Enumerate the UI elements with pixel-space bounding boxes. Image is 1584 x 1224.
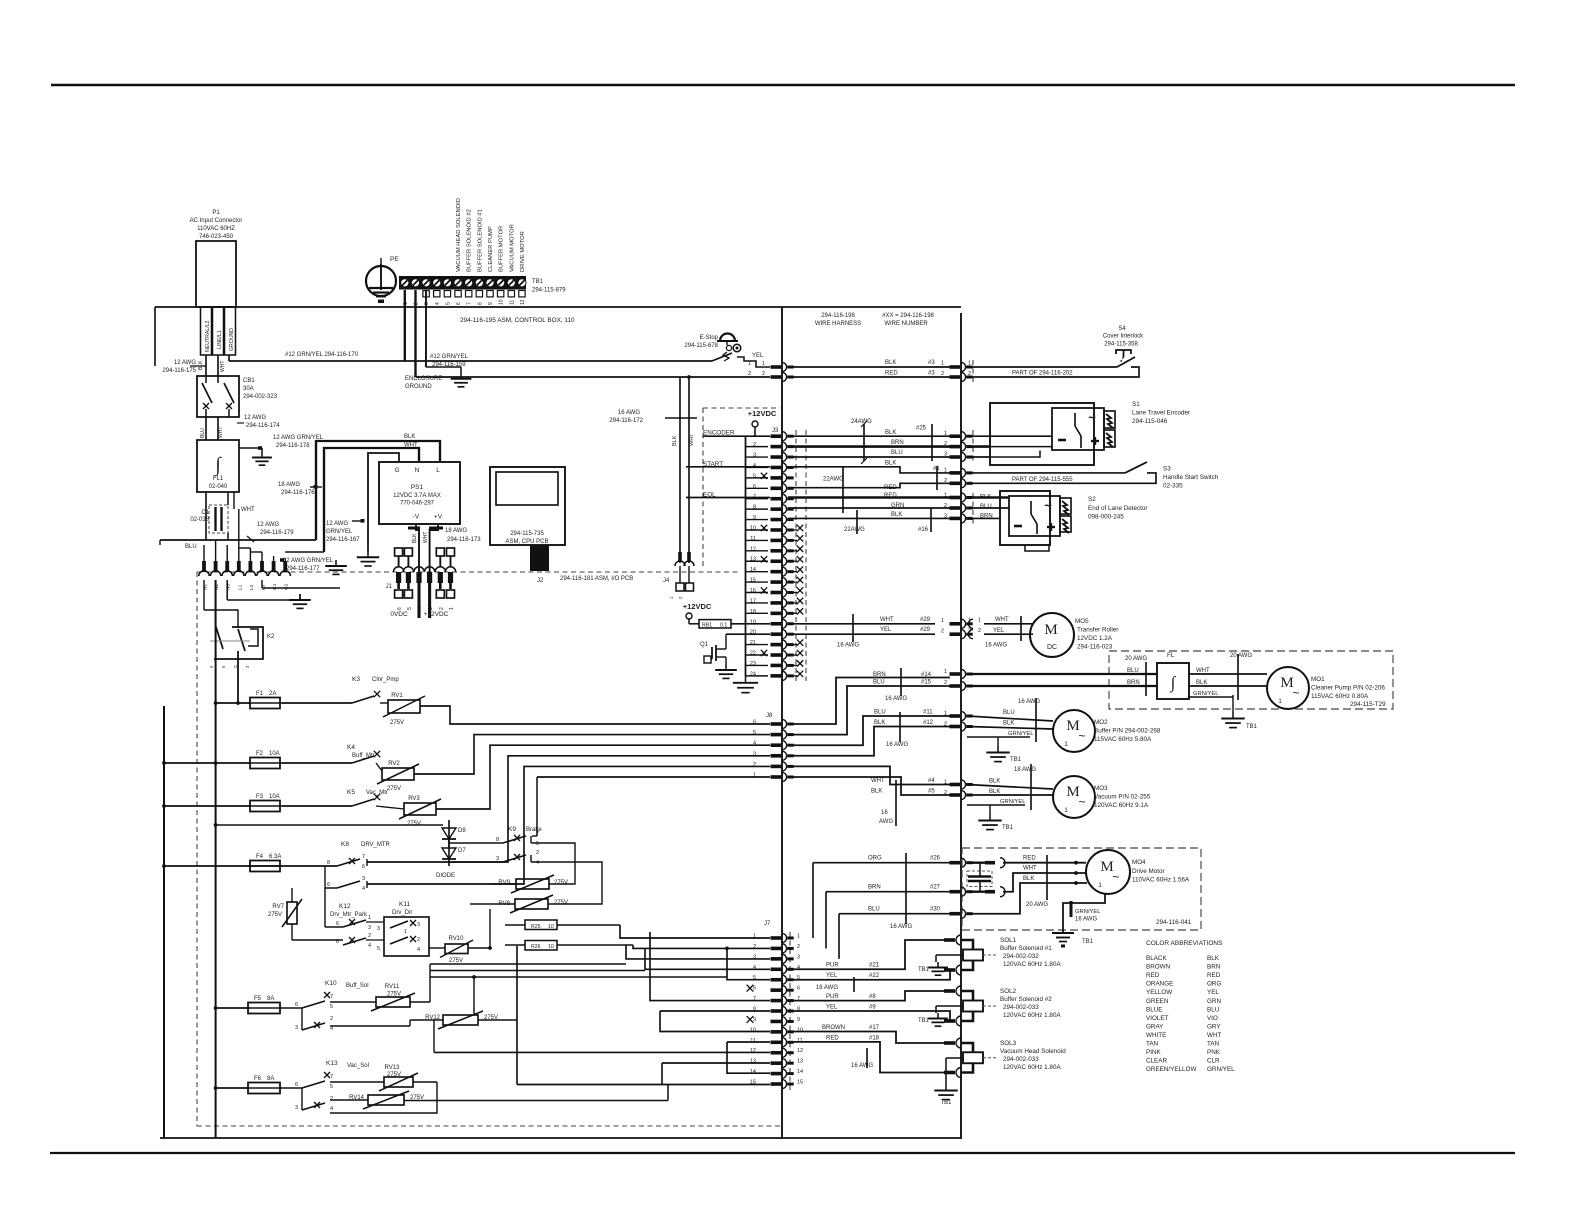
svg-text:R26: R26 [531,944,541,950]
svg-text:MO1: MO1 [1311,676,1325,683]
svg-text:294-115-358: 294-115-358 [1104,342,1138,348]
svg-text:ASM, CPU PCB: ASM, CPU PCB [505,539,548,545]
svg-text:SOL2: SOL2 [1000,988,1017,995]
svg-text:3: 3 [295,1105,298,1111]
svg-text:CB1: CB1 [243,378,255,384]
svg-text:#3: #3 [928,371,935,377]
svg-text:2: 2 [417,937,420,943]
svg-text:10A: 10A [269,751,280,757]
svg-text:1: 1 [1064,807,1068,814]
svg-text:GRN/YEL: GRN/YEL [1193,691,1219,697]
svg-text:294-116-181 ASM, I/O PCB: 294-116-181 ASM, I/O PCB [560,576,633,582]
svg-text:294-002-032: 294-002-032 [1003,953,1039,960]
svg-text:1: 1 [968,618,971,624]
svg-text:BLK: BLK [404,434,415,440]
svg-text:1: 1 [748,361,751,367]
svg-text:RB1: RB1 [702,622,712,628]
svg-text:1: 1 [1278,698,1282,705]
svg-text:8: 8 [496,837,499,843]
svg-text:15: 15 [797,1080,803,1086]
svg-text:CLR: CLR [1207,1058,1220,1065]
svg-text:-V: -V [413,514,420,521]
svg-text:294-116-176: 294-116-176 [281,490,315,496]
svg-text:YEL: YEL [826,1005,838,1011]
svg-text:+V: +V [434,514,443,521]
svg-text:PNK: PNK [1207,1049,1221,1056]
svg-text:S2: S2 [1088,496,1096,503]
svg-text:#26: #26 [930,856,941,862]
svg-text:2: 2 [944,503,947,509]
svg-text:294-116-198: 294-116-198 [821,313,855,319]
svg-text:BLU: BLU [873,680,885,686]
svg-text:D7: D7 [458,848,466,854]
svg-text:#14: #14 [921,672,932,678]
svg-text:16: 16 [881,810,888,816]
svg-text:1: 1 [762,361,765,367]
svg-text:PS1: PS1 [411,484,424,491]
svg-text:+12VDC: +12VDC [683,602,712,611]
svg-text:3: 3 [362,876,365,882]
svg-text:WHT: WHT [871,778,885,784]
svg-text:RV1: RV1 [391,693,403,699]
svg-text:GRN: GRN [891,503,904,509]
svg-text:3: 3 [377,926,380,932]
svg-text:DRV_MTR: DRV_MTR [361,842,391,848]
svg-text:TB1: TB1 [1246,724,1258,730]
svg-text:6: 6 [295,1002,298,1008]
svg-text:120VAC 60Hz 1.80A: 120VAC 60Hz 1.80A [1003,1012,1061,1019]
svg-text:#25: #25 [916,426,927,432]
svg-text:YEL: YEL [826,973,838,979]
svg-text:4: 4 [417,947,420,953]
svg-text:2: 2 [968,628,971,634]
svg-text:1: 1 [1098,882,1102,889]
svg-text:WHT: WHT [1207,1032,1221,1039]
svg-text:G2: G2 [284,583,290,590]
svg-text:VIO: VIO [1207,1015,1218,1022]
svg-text:K5: K5 [347,789,355,796]
svg-text:BLK: BLK [891,512,902,518]
svg-text:12 AWG: 12 AWG [174,360,196,366]
svg-text:LINE/L1: LINE/L1 [217,330,223,349]
svg-text:3: 3 [295,1025,298,1031]
svg-text:BRN: BRN [1207,964,1221,971]
svg-text:2: 2 [944,790,947,796]
svg-text:#12 GRN/YEL 294-116-170: #12 GRN/YEL 294-116-170 [285,352,359,358]
svg-text:GRAY: GRAY [1146,1023,1164,1030]
svg-text:1: 1 [753,773,756,779]
svg-text:RV11: RV11 [385,984,400,990]
svg-text:2: 2 [978,628,981,634]
svg-text:J8: J8 [766,713,773,719]
svg-text:10: 10 [499,299,505,305]
svg-text:BLACK: BLACK [1146,955,1167,962]
svg-text:#29: #29 [920,627,931,633]
svg-text:BRN: BRN [873,672,886,678]
svg-text:1: 1 [449,607,455,610]
svg-text:12 AWG: 12 AWG [244,415,266,421]
svg-text:MO5: MO5 [1075,618,1089,625]
svg-text:6: 6 [753,720,756,726]
svg-text:BROWN: BROWN [822,1025,845,1031]
svg-text:BLK: BLK [1003,721,1014,727]
svg-text:BLK: BLK [885,430,896,436]
svg-text:2: 2 [536,850,539,856]
svg-text:BLU: BLU [185,544,197,550]
svg-text:Buff_Sol: Buff_Sol [346,983,369,989]
svg-text:12VDC 3.7A MAX: 12VDC 3.7A MAX [393,493,441,499]
svg-text:VACUUM MOTOR: VACUUM MOTOR [509,224,515,272]
svg-text:16 AWG: 16 AWG [837,643,859,649]
svg-text:G1: G1 [272,583,278,590]
svg-text:3: 3 [944,452,947,458]
svg-text:RV13: RV13 [385,1065,401,1071]
svg-text:F3: F3 [256,794,264,800]
svg-text:4: 4 [362,886,365,892]
svg-text:294-115-879: 294-115-879 [532,288,566,294]
svg-text:DRIVE MOTOR: DRIVE MOTOR [520,231,526,272]
svg-text:3: 3 [424,302,430,305]
svg-text:AC Input Connector: AC Input Connector [190,218,243,224]
svg-text:Vac_Sol: Vac_Sol [347,1063,369,1069]
svg-text:4: 4 [368,943,371,949]
svg-text:PUR: PUR [826,963,839,969]
svg-text:120VAC 60Hz 1.80A: 120VAC 60Hz 1.80A [1003,1064,1061,1071]
svg-text:6: 6 [397,607,403,610]
svg-text:9: 9 [488,302,494,305]
svg-text:PINK: PINK [1146,1049,1161,1056]
svg-text:PART OF 294-115-555: PART OF 294-115-555 [1012,477,1073,483]
svg-text:6: 6 [797,986,800,992]
svg-text:10: 10 [750,1027,756,1033]
svg-text:MO3: MO3 [1094,785,1108,792]
svg-text:WHT: WHT [1023,866,1037,872]
svg-text:BUFFER MOTOR: BUFFER MOTOR [499,226,505,272]
svg-text:GRY: GRY [1207,1023,1221,1030]
svg-text:E-Stop: E-Stop [700,335,719,341]
svg-text:7: 7 [467,302,473,305]
svg-text:110VAC 60HZ: 110VAC 60HZ [197,226,235,232]
svg-text:K12: K12 [339,903,351,910]
svg-text:4: 4 [753,741,756,747]
svg-text:GRN/YEL: GRN/YEL [326,529,353,535]
svg-text:20 AWG: 20 AWG [1026,902,1048,908]
svg-text:3: 3 [368,925,371,931]
svg-text:10: 10 [548,924,554,930]
svg-text:~: ~ [1112,870,1119,884]
svg-text:1: 1 [968,361,971,367]
svg-text:294-116-174: 294-116-174 [246,423,280,429]
svg-text:3: 3 [753,751,756,757]
svg-text:BRN: BRN [868,885,881,891]
svg-text:#12: #12 [923,720,934,726]
svg-text:GRN/YEL: GRN/YEL [1207,1066,1235,1073]
svg-text:BLU: BLU [891,450,903,456]
svg-text:3: 3 [417,922,420,928]
svg-text:BLK: BLK [885,461,896,467]
svg-text:2: 2 [944,478,947,484]
svg-text:BLK: BLK [412,533,418,543]
svg-text:12VDC 1.2A: 12VDC 1.2A [1077,635,1113,642]
svg-text:5: 5 [407,607,413,610]
svg-text:K13: K13 [326,1060,338,1067]
svg-text:Handle Start Switch: Handle Start Switch [1163,474,1219,481]
svg-text:PUR: PUR [826,994,839,1000]
svg-text:16 AWG: 16 AWG [885,696,907,702]
svg-text:TB1: TB1 [1010,757,1022,763]
svg-text:0.1: 0.1 [720,622,727,628]
svg-text:PE: PE [390,256,399,263]
svg-text:3: 3 [944,514,947,520]
svg-text:1: 1 [368,915,371,921]
svg-text:12 AWG: 12 AWG [257,522,279,528]
svg-text:2: 2 [330,1096,333,1102]
svg-text:L2: L2 [249,584,255,590]
svg-text:PART OF 294-116-202: PART OF 294-116-202 [1012,371,1073,377]
svg-text:0VDC: 0VDC [390,611,408,618]
svg-text:12 AWG GRN/YEL: 12 AWG GRN/YEL [283,558,334,564]
svg-text:6: 6 [295,1082,298,1088]
svg-text:MO2: MO2 [1094,719,1108,726]
svg-text:#5: #5 [928,789,935,795]
svg-text:BLK: BLK [989,779,1000,785]
svg-text:CLEANER PUMP: CLEANER PUMP [488,226,494,272]
svg-text:YEL: YEL [880,627,892,633]
svg-text:K10: K10 [325,980,337,987]
svg-text:6: 6 [456,302,462,305]
svg-text:4: 4 [435,302,441,305]
svg-text:294-115-678: 294-115-678 [684,343,718,349]
svg-text:115VAC 60Hz 5.80A: 115VAC 60Hz 5.80A [1094,736,1152,743]
svg-text:2: 2 [439,607,445,610]
svg-text:16 AWG: 16 AWG [890,924,912,930]
svg-text:GRN: GRN [1207,998,1221,1005]
svg-text:294-116-177: 294-116-177 [286,566,320,572]
svg-text:VIOLET: VIOLET [1146,1015,1169,1022]
svg-text:8A: 8A [267,1076,274,1082]
svg-text:294-002-033: 294-002-033 [1003,1056,1039,1063]
svg-text:294-002-033: 294-002-033 [1003,1004,1039,1011]
svg-text:GREEN: GREEN [1146,998,1169,1005]
svg-text:1: 1 [797,934,800,940]
svg-text:16 AWG: 16 AWG [851,1063,873,1069]
svg-text:TB1: TB1 [1082,939,1094,945]
svg-text:J7: J7 [764,921,771,927]
svg-text:2: 2 [944,441,947,447]
svg-text:16 AWG: 16 AWG [1018,699,1040,705]
svg-text:1: 1 [944,493,947,499]
svg-text:F4: F4 [256,854,264,860]
svg-text:TB1: TB1 [918,967,930,973]
svg-text:24AWG: 24AWG [851,419,872,425]
svg-text:WHT: WHT [880,617,894,623]
svg-text:120VAC 60Hz 9.1A: 120VAC 60Hz 9.1A [1094,802,1149,809]
svg-text:BLU: BLU [200,428,206,438]
svg-text:BLU: BLU [980,504,992,510]
svg-text:GRN/YEL: GRN/YEL [1008,731,1034,737]
svg-text:WHITE: WHITE [1146,1032,1166,1039]
svg-text:4: 4 [330,1026,333,1032]
svg-text:294-116-175: 294-116-175 [162,368,196,374]
svg-text:16 AWG: 16 AWG [816,985,838,991]
svg-text:294-115-046: 294-115-046 [1132,418,1168,425]
svg-text:RED: RED [884,485,897,491]
svg-text:BLK: BLK [198,360,204,370]
svg-text:F2: F2 [256,751,264,757]
svg-text:294-115-735: 294-115-735 [510,531,544,537]
svg-text:16 AWG: 16 AWG [1075,917,1097,923]
svg-text:16 AWG: 16 AWG [985,643,1007,649]
svg-text:RV9: RV9 [498,880,510,886]
svg-text:FL1: FL1 [213,476,224,482]
svg-text:YEL: YEL [1207,989,1219,996]
svg-text:K8: K8 [341,841,349,848]
svg-text:2: 2 [748,371,751,377]
svg-text:D8: D8 [458,828,466,834]
svg-text:#15: #15 [921,680,932,686]
svg-text:C1: C1 [201,510,209,516]
svg-text:End of Lane Detector: End of Lane Detector [1088,505,1148,512]
svg-text:#21: #21 [869,963,880,969]
svg-text:K9: K9 [508,826,516,833]
svg-text:L: L [436,467,440,474]
svg-text:#16: #16 [918,527,929,533]
svg-text:294-115-T29: 294-115-T29 [1350,701,1386,708]
svg-text:BLK: BLK [1196,680,1207,686]
svg-text:18 AWG: 18 AWG [445,528,467,534]
svg-text:BLUE: BLUE [1146,1006,1162,1013]
svg-text:1: 1 [941,618,944,624]
svg-text:#12 GRN/YEL: #12 GRN/YEL [430,354,469,360]
svg-text:20 AWG: 20 AWG [1125,656,1147,662]
svg-text:#XX = 294-116-198: #XX = 294-116-198 [882,313,934,319]
svg-text:Vacuum P/N 02-255: Vacuum P/N 02-255 [1094,794,1151,801]
svg-text:BLK: BLK [885,360,896,366]
svg-text:MO4: MO4 [1132,859,1146,866]
svg-text:K11: K11 [399,901,410,908]
svg-text:10A: 10A [269,794,280,800]
svg-text:294-116-173: 294-116-173 [447,537,481,543]
svg-text:BLU: BLU [1003,710,1015,716]
svg-text:275V: 275V [554,880,568,886]
svg-text:6: 6 [327,882,330,888]
svg-text:120VAC 60Hz 1.80A: 120VAC 60Hz 1.80A [1003,961,1061,968]
svg-text:115VAC 60Hz 0.80A: 115VAC 60Hz 0.80A [1311,693,1369,700]
svg-text:Vacuum Head Solenoid: Vacuum Head Solenoid [1000,1048,1066,1055]
svg-text:SOL1: SOL1 [1000,937,1017,944]
svg-text:Buffer P/N 294-002-268: Buffer P/N 294-002-268 [1094,728,1161,735]
svg-text:5: 5 [445,302,451,305]
svg-text:P1: P1 [212,210,220,216]
svg-text:1: 1 [404,929,407,935]
svg-text:WHT: WHT [1196,668,1210,674]
svg-text:14: 14 [797,1069,803,1075]
svg-text:2: 2 [944,680,947,686]
svg-text:Buffer Solenoid #2: Buffer Solenoid #2 [1000,996,1052,1003]
svg-text:275V: 275V [554,900,568,906]
svg-text:WHT: WHT [423,532,429,543]
svg-text:N: N [415,467,420,474]
svg-text:7: 7 [362,854,365,860]
svg-text:YEL: YEL [993,628,1005,634]
svg-text:13: 13 [797,1059,803,1065]
svg-text:5: 5 [377,946,380,952]
svg-text:1: 1 [944,780,947,786]
svg-text:14: 14 [750,1069,756,1075]
svg-text:BROWN: BROWN [1146,964,1171,971]
svg-text:GROUND: GROUND [229,328,235,351]
svg-text:G: G [394,467,399,474]
svg-text:294-116-179: 294-116-179 [260,530,294,536]
svg-text:746-023-450: 746-023-450 [199,234,234,240]
svg-text:275V: 275V [387,786,401,792]
svg-text:RED: RED [885,371,898,377]
svg-text:ORG: ORG [868,856,882,862]
svg-text:Clnr_Pmp: Clnr_Pmp [372,677,399,683]
svg-text:18 AWG: 18 AWG [1014,767,1036,773]
svg-text:YELLOW: YELLOW [1146,989,1172,996]
svg-text:S3: S3 [1163,466,1171,473]
svg-text:8: 8 [327,860,330,866]
svg-text:CLEAR: CLEAR [1146,1058,1167,1065]
svg-text:TAN: TAN [1207,1041,1220,1048]
svg-text:1: 1 [944,711,947,717]
svg-text:RV2: RV2 [388,761,400,767]
svg-text:ORG: ORG [1207,981,1221,988]
svg-text:#29: #29 [920,617,931,623]
svg-text:5: 5 [536,841,539,847]
svg-text:Cleaner Pump P/N 02-206: Cleaner Pump P/N 02-206 [1311,685,1385,692]
svg-text:J1: J1 [386,584,393,590]
svg-text:4: 4 [536,860,539,866]
svg-text:12 AWG: 12 AWG [326,521,348,527]
svg-text:1: 1 [944,669,947,675]
svg-text:WHT: WHT [404,443,418,449]
svg-text:16 AWG: 16 AWG [886,742,908,748]
svg-text:8A: 8A [267,996,274,1002]
svg-text:294-116-195 ASM, CONTROL BOX,: 294-116-195 ASM, CONTROL BOX, 110 [460,317,575,324]
svg-text:2: 2 [941,371,944,377]
svg-text:#17: #17 [869,1025,880,1031]
svg-text:DIODE: DIODE [436,873,455,879]
svg-text:#22: #22 [869,973,880,979]
svg-text:7: 7 [330,1074,333,1080]
svg-text:6: 6 [336,939,339,945]
svg-text:Drive Motor: Drive Motor [1132,868,1165,875]
svg-text:RV7: RV7 [272,904,284,910]
svg-text:F1: F1 [256,691,264,697]
svg-text:Q1: Q1 [700,642,709,648]
svg-text:BLK: BLK [672,435,678,446]
svg-text:11: 11 [509,300,515,305]
svg-text:WHT: WHT [220,361,226,372]
svg-text:#8: #8 [869,994,876,1000]
svg-text:RED: RED [826,1035,839,1041]
svg-text:TB1: TB1 [1002,825,1014,831]
svg-text:12: 12 [750,1048,756,1054]
svg-text:Buff_Mtr: Buff_Mtr [352,753,375,759]
svg-text:K4: K4 [347,744,355,751]
svg-text:BLK: BLK [871,789,882,795]
svg-text:#11: #11 [923,710,933,716]
svg-text:BLK: BLK [874,720,885,726]
svg-text:BLU: BLU [868,907,880,913]
svg-text:~: ~ [1078,729,1085,743]
svg-text:12: 12 [520,299,526,305]
svg-text:#27: #27 [930,885,941,891]
svg-text:2: 2 [753,762,756,768]
svg-text:9: 9 [797,1017,800,1023]
